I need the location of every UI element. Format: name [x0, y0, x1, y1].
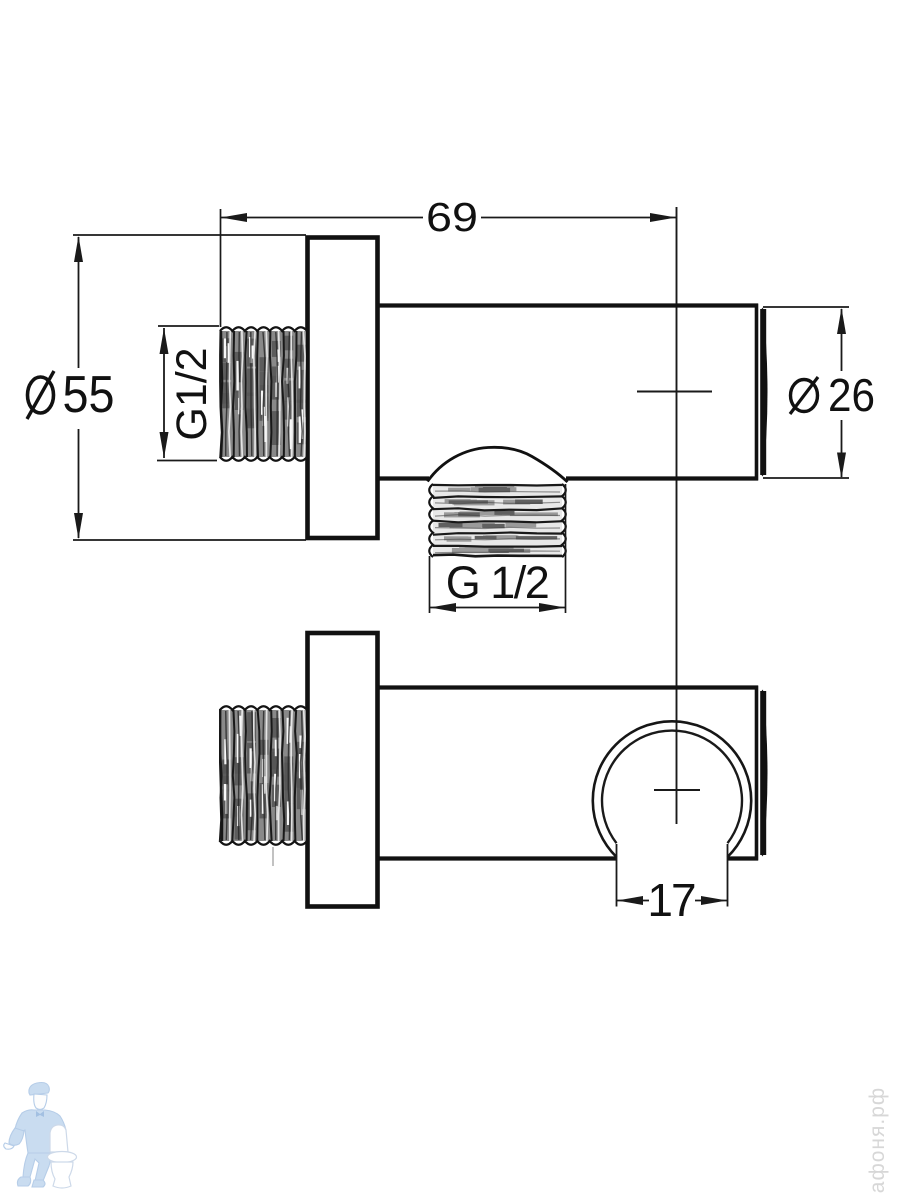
thread G1/2 wall inlet (top view) [220, 327, 307, 461]
plumber left hand [4, 1143, 14, 1149]
label Ø55 diameter symbol [28, 377, 54, 413]
plumber left shoe [17, 1177, 30, 1186]
arrowhead 17 right [701, 896, 727, 905]
svg-text:G 1/2: G 1/2 [446, 557, 549, 608]
label Ø26 diameter symbol [791, 380, 818, 412]
toilet [48, 1125, 77, 1188]
extension line outlet right [565, 484, 567, 613]
plumber mascot logo [4, 1083, 77, 1189]
toilet seat [48, 1152, 77, 1163]
shower holder ring inner arc [602, 731, 742, 844]
arrowhead 69 right [650, 213, 676, 222]
plumber bow tie [36, 1111, 44, 1117]
body right end line [755, 304, 759, 481]
body outline top edge (bottom view) [377, 685, 758, 689]
dimension Ø55 line [78, 237, 80, 368]
arrowhead 69 left [221, 213, 247, 222]
toilet tank [50, 1125, 68, 1152]
arrowhead G1/2 bottom [160, 432, 169, 458]
extension line outlet left [429, 556, 431, 613]
holder opening left edge / extension [616, 844, 618, 907]
extension line thread left [220, 209, 222, 327]
wall flange (bottom view) [308, 633, 378, 907]
holder opening right edge / extension [727, 844, 729, 907]
plumber legs [23, 1153, 50, 1181]
dimension 17 line left [617, 900, 649, 902]
dimension G 1/2 line [430, 607, 565, 609]
extension line G1/2 bottom [157, 460, 217, 462]
body end cap [761, 308, 768, 477]
shower holder ring outer arc [593, 721, 751, 857]
body right end line (bottom view) [755, 686, 759, 861]
extension line flange bottom [73, 539, 306, 541]
body end cap (bottom view) [761, 690, 768, 857]
svg-text:17: 17 [647, 874, 695, 926]
dome above outlet [428, 447, 568, 482]
stray mark below thread [272, 847, 274, 866]
arrowhead G 1/2 right [539, 603, 565, 612]
plumber right shoe [32, 1180, 45, 1187]
body outline bottom edge left part [377, 476, 429, 480]
arrowhead 17 left [617, 896, 643, 905]
extension line Ø26 bottom [763, 477, 849, 479]
body outline top edge [377, 303, 758, 307]
body outline bottom edge left part (bottom view) [377, 856, 616, 860]
dimension 17 line right [695, 900, 727, 902]
arrowhead Ø26 bottom [837, 453, 846, 479]
dimension G1/2 line [163, 328, 165, 458]
center mark horizontal (bottom view) [654, 789, 700, 791]
toilet base [51, 1162, 73, 1188]
extension line G1/2 top [158, 325, 219, 327]
arrowhead G1/2 top [160, 328, 169, 354]
plumber cap [29, 1083, 49, 1096]
arrowhead Ø26 top [837, 308, 846, 334]
svg-text:55: 55 [63, 366, 115, 424]
thread G 1/2 outlet (top view) [429, 484, 566, 557]
arrowhead G 1/2 left [430, 603, 456, 612]
plumber left arm on hip [9, 1128, 24, 1145]
center line vertical (holder axis) [676, 207, 678, 824]
svg-text:26: 26 [828, 369, 875, 421]
extension line flange top [73, 234, 306, 236]
dimension 69 line [221, 217, 423, 219]
center mark horizontal (top view) [637, 391, 712, 393]
plumber torso jacket [15, 1110, 66, 1153]
body outline bottom edge right part [566, 476, 758, 480]
arrowhead Ø55 top [74, 236, 83, 262]
thread G1/2 wall inlet (bottom view) [220, 706, 307, 845]
svg-text:69: 69 [426, 194, 478, 240]
arrowhead Ø55 bottom [74, 513, 83, 539]
wall flange (top view) [308, 238, 378, 539]
body outline bottom edge right part (bottom view) [728, 856, 759, 860]
svg-text:афоня.рф: афоня.рф [866, 1087, 889, 1193]
svg-text:G1/2: G1/2 [168, 347, 216, 440]
extension line Ø26 top [763, 306, 849, 308]
dimension Ø26 line [841, 309, 843, 371]
plumber head [34, 1094, 47, 1110]
